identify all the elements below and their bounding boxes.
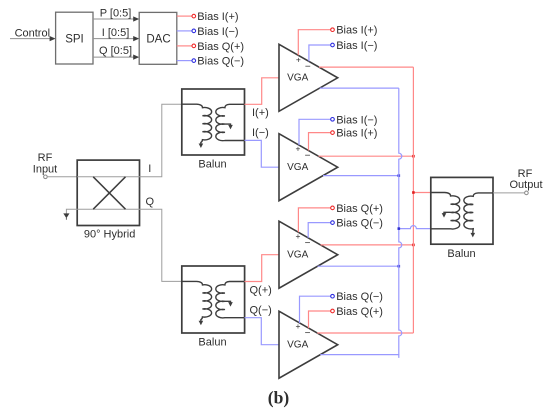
- op-amp VGA3: [279, 221, 338, 288]
- balun B2 box: [182, 266, 245, 333]
- wire Q(-) balun2 to VGA4: [245, 318, 280, 345]
- wire I(-) balun1 to VGA2: [245, 140, 280, 167]
- svg-text:VGA: VGA: [287, 73, 308, 84]
- wire VGA3 bias-: [308, 221, 334, 238]
- wire VGA4 out+ to red bus: [317, 332, 413, 334]
- balun B3 secondary coil: [464, 193, 493, 238]
- svg-text:Q(−): Q(−): [250, 304, 272, 316]
- wire VGA3 bias+: [298, 206, 334, 232]
- wire VGA1 out- to blue bus: [320, 87, 399, 89]
- svg-text:DAC: DAC: [146, 33, 170, 45]
- wire RF output: [493, 191, 528, 195]
- junction VGA3 red: [412, 244, 415, 247]
- junction red feed: [412, 191, 415, 194]
- wire I(+) balun1 to VGA1: [245, 78, 280, 105]
- svg-text:I [0:5]: I [0:5]: [102, 27, 130, 39]
- wire blue feed to out balun with hop: [399, 226, 431, 229]
- wire Q(+) balun2 to VGA3: [245, 255, 280, 282]
- svg-text:VGA: VGA: [287, 250, 308, 261]
- svg-text:+: +: [296, 231, 301, 241]
- wire Q from hybrid to balun2: [140, 209, 182, 281]
- balun B2 secondary coil: [216, 282, 245, 318]
- wire DAC Bias Q(-): [177, 59, 196, 63]
- block 90 Hybrid: [77, 160, 139, 225]
- svg-text:−: −: [305, 151, 311, 162]
- svg-text:Bias I(−): Bias I(−): [336, 40, 377, 52]
- svg-text:Bias I(+): Bias I(+): [336, 25, 377, 37]
- wire I bus: [93, 36, 139, 41]
- svg-text:Control: Control: [15, 27, 50, 39]
- svg-text:Bias Q(−): Bias Q(−): [336, 218, 383, 230]
- svg-text:Bias I(−): Bias I(−): [197, 26, 238, 38]
- svg-text:Bias Q(−): Bias Q(−): [336, 291, 383, 303]
- svg-text:Balun: Balun: [198, 159, 226, 171]
- svg-text:I: I: [148, 163, 151, 175]
- svg-text:Bias I(+): Bias I(+): [197, 11, 238, 23]
- svg-text:Q [0:5]: Q [0:5]: [99, 45, 132, 57]
- svg-text:Input: Input: [33, 163, 57, 175]
- svg-text:I(+): I(+): [252, 107, 269, 119]
- svg-text:(b): (b): [268, 388, 290, 408]
- svg-text:Q: Q: [146, 196, 155, 208]
- wire RF input: [44, 175, 78, 179]
- wire P bus: [93, 16, 139, 21]
- svg-text:Bias I(+): Bias I(+): [336, 128, 377, 140]
- junction VGA2 blue: [398, 174, 401, 177]
- balun B1 secondary coil: [216, 104, 245, 140]
- junction blue feed: [398, 227, 401, 230]
- ground hybrid: [63, 209, 77, 219]
- svg-text:VGA: VGA: [287, 340, 308, 351]
- balun B1 box: [182, 89, 245, 155]
- svg-text:Output: Output: [509, 179, 542, 191]
- wire VGA2 out+ to red bus: [318, 155, 413, 157]
- svg-text:Balun: Balun: [198, 337, 226, 349]
- wire VGA2 bias+: [309, 131, 335, 151]
- wire red feed to out balun: [413, 192, 430, 194]
- svg-text:I(−): I(−): [252, 127, 269, 139]
- wire VGA3 out+ to red bus: [321, 244, 414, 246]
- svg-text:−: −: [305, 61, 311, 72]
- balun B1 primary coil: [182, 104, 212, 148]
- svg-text:+: +: [296, 54, 301, 64]
- op-amp VGA1: [279, 44, 338, 111]
- junction VGA3 blue: [398, 265, 401, 268]
- node RF Input label: [33, 152, 57, 175]
- op-amp VGA4: [279, 311, 338, 378]
- svg-text:90° Hybrid: 90° Hybrid: [84, 229, 135, 241]
- wire VGA4 bias-: [300, 294, 335, 323]
- wire VGA4 out- to blue bus: [320, 355, 399, 358]
- balun B3 primary coil: [431, 193, 460, 230]
- svg-text:Bias Q(−): Bias Q(−): [197, 56, 244, 68]
- svg-text:VGA: VGA: [287, 162, 308, 173]
- svg-text:−: −: [305, 328, 311, 339]
- wire DAC Bias I(-): [177, 29, 196, 33]
- svg-text:Bias I(−): Bias I(−): [336, 114, 377, 126]
- wire VGA1 bias+: [298, 28, 334, 55]
- block DAC: [139, 12, 177, 64]
- op-amp VGA2: [279, 134, 338, 201]
- wire DAC Bias Q(+): [177, 44, 196, 48]
- wire Q bus: [93, 55, 139, 60]
- wire VGA4 bias+: [309, 309, 335, 328]
- svg-text:Q(+): Q(+): [250, 285, 272, 297]
- balun B3 box: [431, 177, 493, 244]
- svg-text:Bias Q(+): Bias Q(+): [336, 203, 383, 215]
- balun B2 primary coil: [182, 281, 212, 325]
- node RF Output label: [509, 168, 542, 191]
- wire VGA2 bias-: [299, 118, 334, 146]
- svg-text:Balun: Balun: [447, 248, 475, 260]
- svg-text:+: +: [296, 144, 301, 154]
- wire VGA3 out- to blue bus: [318, 265, 399, 267]
- junction VGA2 red: [412, 155, 415, 158]
- wire Control: [10, 36, 56, 41]
- svg-text:SPI: SPI: [65, 33, 84, 45]
- svg-text:Bias Q(+): Bias Q(+): [336, 306, 383, 318]
- wire I from hybrid to balun1: [140, 104, 182, 177]
- wire VGA1 out+ to red bus: [319, 66, 414, 68]
- block SPI: [56, 12, 93, 64]
- svg-text:RF: RF: [38, 152, 53, 164]
- wire blue bus with hops: [399, 88, 402, 355]
- wire VGA2 out- to blue bus: [323, 175, 399, 177]
- wire DAC Bias I(+): [177, 14, 196, 18]
- svg-text:Bias Q(+): Bias Q(+): [197, 41, 244, 53]
- wire red bus: [412, 67, 414, 333]
- svg-text:P [0:5]: P [0:5]: [100, 8, 132, 20]
- wire VGA1 bias-: [309, 43, 334, 61]
- svg-text:−: −: [305, 238, 311, 249]
